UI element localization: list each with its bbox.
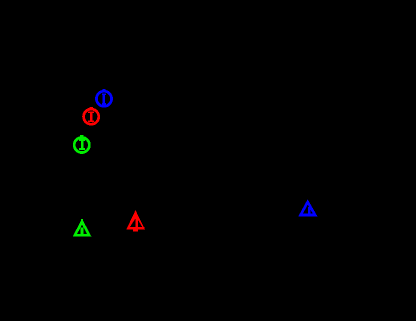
current source I2 (red phase) <box>82 107 100 126</box>
current arrow head A3 (green) <box>75 219 89 235</box>
current arrow head A2 (red) <box>127 211 145 232</box>
current source I3 (green phase) <box>73 135 91 154</box>
current source I1 (blue phase) <box>95 89 113 108</box>
current arrow head A1 (blue) <box>301 202 316 215</box>
